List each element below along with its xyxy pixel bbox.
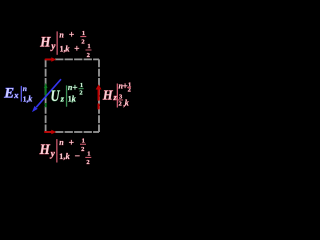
label Hy top : H_y |^(n+1/2)_(1,k+1/2) <box>39 30 91 59</box>
arrow Uz left (green, pointing up, dashed stem) <box>44 83 48 108</box>
svg-text:n: n <box>59 30 64 39</box>
svg-text:n: n <box>23 84 27 93</box>
svg-text:H: H <box>102 89 114 104</box>
svg-text:2: 2 <box>119 101 122 108</box>
svg-text:x: x <box>13 90 19 100</box>
svg-text:2: 2 <box>86 159 89 166</box>
svg-text:1: 1 <box>87 43 90 50</box>
svg-text:1: 1 <box>87 150 90 157</box>
arrow Ex (blue diagonal, pointing down-left out of plane) <box>32 79 61 112</box>
svg-text:E: E <box>3 85 14 101</box>
Yee cell outline top edge (dashed gray) <box>46 58 99 60</box>
svg-text:+: + <box>74 45 79 55</box>
svg-text:n: n <box>59 138 64 147</box>
Yee cell outline left edge (dashed gray) <box>45 59 47 132</box>
label Uz center (green) : U_z |^(n+1/2)_(1,k) <box>51 82 84 107</box>
arrow Hy bottom (on bottom edge, pointing +x) <box>44 130 56 135</box>
svg-text:1: 1 <box>80 82 83 89</box>
label Ex left (blue) : E_x |^n_(1,k) <box>3 84 32 104</box>
svg-text:1: 1 <box>82 30 85 37</box>
svg-text:k: k <box>125 99 129 108</box>
label Hz right : H_z |^(n+1/2)_(3/2,k) <box>102 81 131 108</box>
arrow Hz right (on right edge, pointing up, dashed stem) <box>96 84 102 109</box>
Yee cell outline bottom edge (dashed gray) <box>46 131 99 133</box>
Yee cell outline right edge (dashed gray) <box>98 59 100 132</box>
label Hy bottom : H_y |^(n+1/2)_(1,k-1/2) <box>39 138 92 167</box>
arrow Hy top (on top edge, pointing +x) <box>45 57 56 62</box>
svg-text:k: k <box>65 44 70 54</box>
svg-text:k: k <box>28 95 32 104</box>
svg-text:H: H <box>39 142 51 158</box>
svg-text:2: 2 <box>87 52 90 59</box>
svg-text:−: − <box>75 152 80 162</box>
svg-text:2: 2 <box>81 38 84 45</box>
svg-text:+: + <box>69 138 74 148</box>
svg-text:k: k <box>72 93 77 103</box>
svg-text:1: 1 <box>82 138 85 145</box>
svg-text:2: 2 <box>79 89 82 96</box>
svg-text:+: + <box>72 83 77 93</box>
svg-text:2: 2 <box>81 146 84 153</box>
svg-text:H: H <box>39 35 51 51</box>
svg-text:1,: 1, <box>59 152 65 161</box>
svg-text:+: + <box>69 31 74 41</box>
svg-text:U: U <box>51 88 61 105</box>
